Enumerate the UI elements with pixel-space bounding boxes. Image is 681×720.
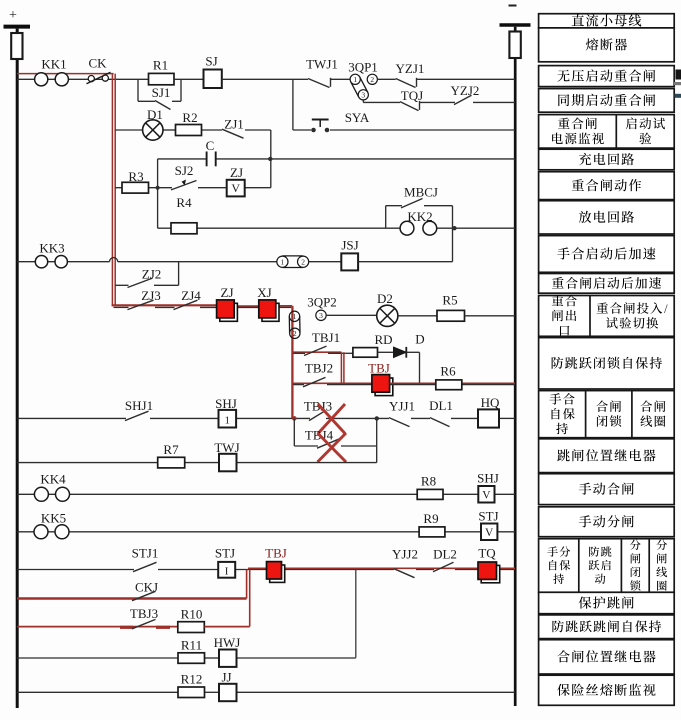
- watermark fragment: [676, 70, 681, 80]
- wire red overlay STJ1 row: [248, 567, 515, 569]
- table row 重合闸动作: [539, 172, 675, 200]
- resistor RD: [353, 348, 378, 358]
- switch KK1 contact b: [55, 73, 68, 86]
- wire TBJ1 row red: [292, 351, 341, 353]
- svg-text:CK: CK: [88, 56, 107, 71]
- wire HWJ row: [17, 657, 178, 659]
- mark X TBJ3: [318, 404, 345, 434]
- svg-text:CKJ: CKJ: [135, 580, 158, 595]
- svg-text:1: 1: [224, 414, 230, 426]
- node minus label: [509, 5, 517, 7]
- wire 3QP2 to D2: [326, 314, 376, 316]
- table row 重合闸启动后加速: [539, 274, 675, 294]
- svg-text:HWJ: HWJ: [214, 635, 241, 650]
- svg-text:ZJ: ZJ: [221, 285, 234, 300]
- svg-text:V: V: [482, 490, 491, 502]
- resistor R8: [417, 489, 443, 499]
- wire right bus: [514, 27, 517, 706]
- table row 无压启动重合闸: [539, 66, 675, 87]
- wire vertical x376.7: [376, 418, 378, 462]
- wire D2 to R5: [398, 315, 437, 317]
- table row 手动合闸: [539, 474, 675, 505]
- negative bus terminal bar: [500, 23, 531, 27]
- contact TBJ1: [304, 346, 327, 355]
- svg-text:SHJ1: SHJ1: [125, 398, 153, 413]
- wire TBJ3 R10 row red: [17, 626, 178, 628]
- svg-text:HQ: HQ: [481, 395, 500, 410]
- wire TBJ to R6 red: [390, 382, 515, 384]
- contact TBJ4: [317, 439, 340, 448]
- svg-text:/: /: [664, 302, 668, 316]
- svg-text:KK1: KK1: [41, 57, 66, 72]
- contact YJJ2: [394, 569, 415, 578]
- svg-text:KK2: KK2: [407, 209, 432, 224]
- svg-text:ZJ2: ZJ2: [142, 267, 162, 282]
- svg-text:YZJ1: YZJ1: [396, 61, 425, 76]
- contact TWJ1: [308, 79, 330, 88]
- relay STJ voltage coil: [481, 524, 497, 541]
- relay SHJ voltage coil: [478, 486, 494, 503]
- table row 手动分闸: [539, 507, 675, 537]
- svg-text:R11: R11: [181, 638, 202, 653]
- relay coil TQ: [481, 565, 500, 582]
- contact ZJ1: [222, 129, 244, 138]
- svg-text:TWJ1: TWJ1: [306, 57, 338, 72]
- wire D1 row: [115, 129, 143, 131]
- switch KK4 contact b: [56, 487, 70, 501]
- capacitor C: [206, 152, 208, 167]
- svg-text:ZJ4: ZJ4: [181, 288, 201, 303]
- branch MBCJ: [385, 206, 387, 229]
- relay coil ZJ: [220, 303, 238, 321]
- contact SHJ1: [125, 411, 149, 420]
- connector plug pins 1-2: [282, 267, 303, 269]
- wire KK3 row: [17, 261, 110, 263]
- wire TBJ2 row: [292, 382, 372, 384]
- table row 直流小母线: [539, 14, 675, 28]
- svg-text:SHJ: SHJ: [215, 396, 237, 411]
- table row 同期启动重合闸: [539, 89, 675, 113]
- wire gray vertical x355.8: [355, 570, 357, 658]
- switch KK5 contact b: [55, 525, 69, 539]
- lamp D1: [143, 120, 163, 140]
- wire red row ZJ3: [112, 304, 217, 306]
- table row 保险丝熔断监视: [539, 675, 675, 705]
- wire plug to JSJ: [309, 261, 341, 263]
- svg-text:R9: R9: [423, 511, 438, 526]
- wire red vertical pair x247-250: [246, 570, 248, 599]
- node C junction: [268, 157, 272, 161]
- contact SJ1: [155, 101, 171, 110]
- fuse left bus: [11, 33, 22, 59]
- relay coil JJ: [219, 684, 237, 701]
- contact STJ1: [133, 562, 157, 571]
- svg-text:3QP2: 3QP2: [307, 295, 337, 310]
- svg-text:R3: R3: [128, 169, 143, 184]
- resistor R3: [122, 182, 149, 193]
- svg-text:SJ2: SJ2: [175, 163, 194, 178]
- relay coil TBJ: [375, 378, 393, 396]
- contact TBJ2: [303, 377, 326, 386]
- contact SJ1 branch: [137, 79, 139, 101]
- svg-text:R4: R4: [176, 195, 192, 210]
- wire ZJ2 branch: [115, 284, 129, 286]
- node KK2 junction: [452, 226, 456, 230]
- wire R10 to red vertical: [204, 626, 249, 628]
- svg-text:KK5: KK5: [41, 511, 66, 526]
- contact SJ2: [171, 181, 197, 190]
- svg-text:R2: R2: [182, 110, 197, 125]
- wire R4 row: [158, 227, 171, 229]
- table row 熔断器: [539, 28, 675, 62]
- svg-text:3: 3: [319, 311, 323, 320]
- svg-text:1: 1: [293, 312, 297, 321]
- svg-text:V: V: [231, 181, 240, 195]
- switch KK2 contact b: [423, 221, 437, 235]
- node YJJ1 junction: [375, 416, 379, 420]
- wire red overlay row1: [17, 73, 114, 75]
- table row 保护跳闸: [539, 592, 675, 613]
- wire ZJ1 down: [270, 130, 272, 188]
- svg-text:3QP1: 3QP1: [348, 60, 378, 75]
- svg-text:TQJ: TQJ: [401, 88, 423, 103]
- contact YJJ1: [389, 418, 410, 427]
- wire red vertical pair x113: [111, 74, 113, 307]
- svg-text:TBJ2: TBJ2: [305, 361, 333, 376]
- relay coil JSJ: [341, 253, 358, 270]
- svg-text:DL2: DL2: [433, 547, 457, 562]
- mark X TBJ4: [318, 433, 347, 462]
- wire TWJ row: [17, 462, 158, 464]
- svg-text:D1: D1: [147, 107, 163, 122]
- svg-text:ZJ: ZJ: [230, 165, 243, 180]
- connector 3QP2 pin3: [316, 310, 326, 320]
- svg-text:SYA: SYA: [345, 110, 370, 125]
- relay coil XJ: [262, 303, 279, 321]
- vertical x157.6 C row to R4 row: [157, 159, 159, 228]
- contact YZJ2: [454, 95, 472, 104]
- contact MBCJ: [401, 199, 423, 208]
- svg-text:SJ: SJ: [205, 54, 217, 69]
- wire capacitor row: [158, 158, 207, 160]
- relay coil HQ: [478, 409, 499, 427]
- wire RD to diode: [378, 351, 394, 353]
- wire left bus: [16, 29, 19, 708]
- wire TQJ to YZJ2: [420, 101, 455, 103]
- svg-text:3: 3: [361, 91, 365, 100]
- svg-text:ZJ1: ZJ1: [224, 117, 244, 132]
- wire SJ to TWJ1: [222, 78, 308, 80]
- svg-text:ZJ3: ZJ3: [141, 288, 161, 303]
- wire hop over red vertical: [110, 258, 118, 262]
- wire TBJ4 branch: [293, 418, 295, 446]
- lamp D2: [377, 305, 398, 326]
- pushbutton SYA: [311, 128, 316, 133]
- relay ZJ voltage coil: [227, 180, 245, 197]
- switch KK1 contact a: [35, 73, 48, 86]
- svg-text:XJ: XJ: [257, 285, 271, 300]
- svg-text:TBJ: TBJ: [265, 546, 287, 561]
- resistor R5: [437, 310, 465, 321]
- contact CKJ: [132, 591, 156, 600]
- svg-text:SHJ: SHJ: [477, 471, 499, 486]
- relay SHJ box 1: [219, 410, 237, 428]
- wire node SJ-TWJ1 down to SYA: [292, 79, 294, 130]
- resistor R7: [158, 457, 185, 468]
- svg-text:D2: D2: [377, 291, 393, 306]
- svg-text:R6: R6: [440, 364, 456, 379]
- table row 充电回路: [539, 149, 675, 170]
- svg-text:TQ: TQ: [478, 546, 496, 561]
- contact TBJ3: [309, 411, 325, 420]
- resistor R2: [176, 125, 202, 136]
- contact DL2: [433, 562, 454, 571]
- wire YZJ1 to - bus: [417, 78, 515, 80]
- resistor R11: [178, 653, 205, 664]
- table row 合闸位置继电器: [539, 640, 675, 674]
- relay coil TBJ seal-in: [270, 565, 285, 582]
- table row 防跳跃跳闸自保持: [539, 615, 675, 639]
- wire JJ row: [17, 691, 178, 693]
- svg-text:YJJ1: YJJ1: [389, 399, 415, 414]
- svg-text:C: C: [206, 138, 215, 153]
- contact ZJ2: [128, 278, 153, 287]
- svg-text:MBCJ: MBCJ: [404, 185, 438, 200]
- table row 跳闸位置继电器: [539, 439, 675, 473]
- contact DL1: [430, 418, 450, 427]
- svg-text:2: 2: [370, 75, 374, 84]
- switch KK3 contact b: [55, 256, 67, 268]
- svg-text:KK4: KK4: [40, 472, 66, 487]
- svg-text:JSJ: JSJ: [341, 238, 358, 253]
- wire 3QP1 pin3 down: [362, 100, 364, 103]
- wire JSJ up to KK2 node: [358, 261, 452, 263]
- contact YZJ1: [396, 79, 416, 88]
- positive bus terminal bar: [4, 25, 31, 29]
- wire R1 to SJ: [174, 78, 204, 80]
- contact ZJ4: [174, 300, 198, 309]
- wire R3 row: [115, 187, 122, 189]
- wire KK4 row: [17, 493, 417, 495]
- connector 3QP2: [288, 316, 290, 333]
- svg-text:R12: R12: [181, 672, 203, 687]
- relay coil HWJ: [219, 650, 237, 667]
- wire STJ1 row: [17, 569, 134, 571]
- wire R5 to - bus: [465, 315, 516, 317]
- table row 防跳跃闭锁自保持: [539, 338, 675, 389]
- table row 手分自保持/防跳跃启动/分闸闭锁/分闸线圈: [539, 539, 675, 593]
- svg-text:D: D: [415, 332, 424, 347]
- svg-text:TWJ: TWJ: [214, 440, 239, 455]
- wire TWJ1 to 3QP1: [331, 78, 350, 80]
- wire YZJ2 to - bus: [473, 101, 515, 103]
- svg-text:STJ: STJ: [215, 546, 235, 561]
- contact TBJ3 seal: [132, 619, 156, 628]
- arrow SJ2: [182, 180, 187, 186]
- fuse right bus: [509, 32, 520, 59]
- vertical x270.8 joins rows: [156, 186, 160, 190]
- svg-text:2: 2: [293, 329, 297, 338]
- svg-text:1: 1: [353, 75, 357, 84]
- svg-text:R1: R1: [153, 58, 168, 73]
- wire SHJ1 row: [17, 417, 126, 419]
- resistor R9: [419, 527, 445, 537]
- svg-text:SJ1: SJ1: [152, 85, 171, 100]
- contact TQJ: [400, 102, 419, 111]
- resistor R10: [178, 622, 205, 633]
- svg-text:R7: R7: [163, 442, 179, 457]
- svg-text:RD: RD: [374, 332, 392, 347]
- svg-text:+: +: [9, 8, 17, 23]
- resistor R4: [171, 223, 197, 234]
- switch CK: [88, 76, 94, 82]
- diode D: [394, 347, 407, 357]
- svg-text:YZJ2: YZJ2: [451, 83, 480, 98]
- switch KK3 contact a: [35, 256, 47, 268]
- svg-text:R10: R10: [181, 607, 203, 622]
- wire KK5 row: [17, 531, 419, 533]
- svg-text:I: I: [225, 566, 229, 578]
- svg-text:STJ1: STJ1: [132, 546, 159, 561]
- svg-text:R8: R8: [421, 474, 436, 489]
- relay STJ box I: [218, 562, 235, 578]
- resistor R12: [178, 687, 205, 698]
- resistor R6: [436, 380, 462, 390]
- svg-text:STJ: STJ: [478, 509, 498, 524]
- wire red vertical pair TBJ1-TBJ2: [340, 352, 342, 384]
- svg-text:R5: R5: [442, 293, 457, 308]
- switch KK5 contact a: [34, 525, 48, 539]
- svg-text:YJJ2: YJJ2: [392, 547, 418, 562]
- wire row1 from + bus to R1: [17, 78, 149, 80]
- wire diode down to TBJ2 row: [406, 351, 419, 353]
- wire CKJ row red: [17, 597, 247, 599]
- wire 3QP1 pin2 to YZJ1: [377, 78, 395, 80]
- table row 重合闸电源监视/启动试验: [539, 115, 675, 149]
- svg-text:KK3: KK3: [39, 241, 64, 256]
- svg-text:DL1: DL1: [429, 398, 453, 413]
- svg-text:2: 2: [301, 258, 305, 267]
- switch KK2 contact a: [400, 221, 414, 235]
- connector 3QP1: [351, 82, 359, 98]
- svg-text:JJ: JJ: [221, 670, 231, 685]
- svg-text:V: V: [485, 527, 494, 539]
- svg-text:TBJ1: TBJ1: [312, 330, 340, 345]
- wire to RD: [346, 352, 353, 354]
- contact ZJ3: [128, 300, 154, 309]
- node red vertical end: [292, 416, 297, 421]
- wire red vertical x292.5: [291, 306, 293, 419]
- table row 手合启动后加速: [539, 236, 675, 273]
- svg-text:1: 1: [281, 258, 285, 267]
- wire black row ZJ3: [114, 306, 129, 308]
- svg-text:TBJ: TBJ: [368, 361, 390, 376]
- wire SYA to - bus: [330, 129, 515, 131]
- table row 放电回路: [539, 201, 675, 234]
- table row 重合闸出口/重合闸投入试验切换: [539, 296, 675, 337]
- switch KK4 contact a: [34, 487, 48, 501]
- svg-text:TBJ3: TBJ3: [130, 606, 158, 621]
- relay coil SJ: [204, 70, 222, 89]
- resistor R1: [149, 73, 175, 84]
- wire C row to - bus: [270, 158, 515, 160]
- table row 手合自保持/合闸闭锁/合闸线圈: [539, 391, 675, 438]
- relay coil TWJ: [219, 454, 237, 472]
